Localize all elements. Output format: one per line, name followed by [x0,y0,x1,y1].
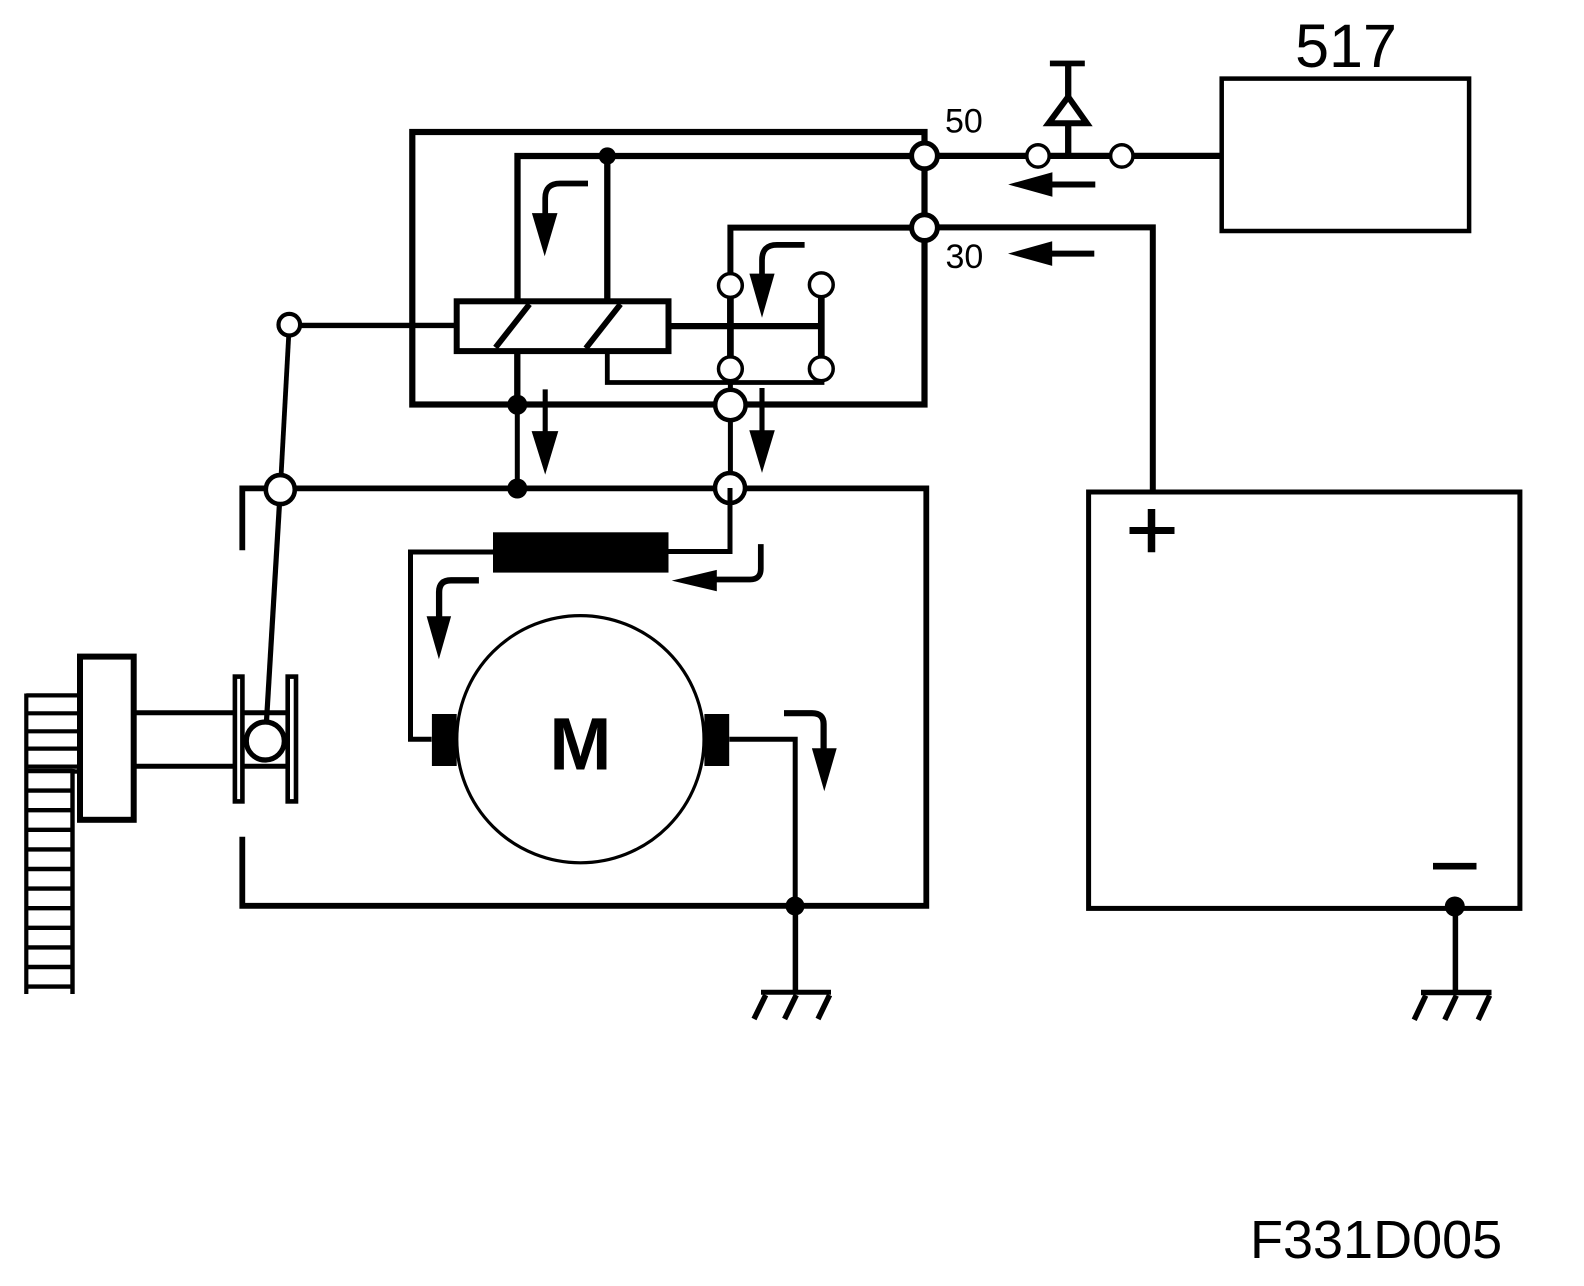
wire: node 30 to top-left contact [730,228,920,286]
arrow: field current (curved, pointing left) [672,544,761,591]
junction dot on starter box top edge [507,479,527,499]
arrow: into motor (curved, down, left of motor) [427,580,479,659]
motor right brush (black) [704,714,729,766]
arrow: out of motor (curved, down, right of motor) [784,713,837,791]
svg-text:M: M [549,703,611,786]
lever ball end [246,722,284,760]
clutch flange right bar [288,677,296,802]
junction dot battery negative [1445,897,1465,917]
arrow: down into starter (left) [532,389,559,474]
wire: solenoid left lead from lever pivot to coil [289,323,456,328]
wire: inner loop top, y=155 from corner to node 50 [518,156,921,301]
junction dot on relay bottom edge [507,395,527,415]
wire: coil top feed from junction [604,156,610,301]
svg-text:30: 30 [946,238,984,276]
diode / ignition switch symbol above 50 wire [1049,61,1087,154]
arrow: down into starter (right) [749,388,775,473]
relay box (solenoid switch housing) [412,132,924,405]
contact circle bottom-left [719,357,743,381]
ring gear teeth (lower rack) [26,769,78,994]
svg-text:517: 517 [1295,12,1397,80]
box 517 (ignition switch unit) [1222,79,1469,231]
wire: terminal 50 to ignition switch connectors [925,153,1222,159]
wire: battery negative to ground [1453,906,1459,990]
wire: field winding left end to motor left brush [411,552,494,739]
motor armature circle [457,616,704,863]
arrow: current to contacts (curved, inside relay right) [749,245,804,318]
contact circle bottom-right [809,357,833,381]
wire: coil bottom-right to moving contact (via elbow) [607,350,822,383]
contact circle top-left [719,274,743,298]
node 50 circle [912,143,938,169]
junction dot on starter box bottom edge [786,897,805,916]
connector circle right on 50 wire [1111,145,1133,167]
starter motor box (with gap in left edge for lever) [242,488,926,905]
engagement lever: lower link [265,490,280,741]
clutch flange left bar [235,677,243,802]
wire: coil bottom-left down to relay bottom edge [514,350,520,405]
contact bar right (moving contact) [818,285,825,369]
engagement lever: upper link [280,325,289,490]
motor left brush (black) [432,714,457,766]
armature shaft (two lines) [136,713,287,766]
contact bar left (moving contact) [727,286,734,369]
svg-text:F331D005: F331D005 [1250,1210,1502,1270]
lever fulcrum circle on starter box edge [266,475,295,504]
battery box [1089,492,1520,908]
pinion gear teeth (upper rack) [26,694,79,995]
node: big junction on relay bottom edge [715,390,745,420]
field winding (solid black) [493,532,669,572]
arrow: current from 517 toward 50 (left pointing) [1008,172,1095,197]
contact bridge bar from coil plunger [669,323,822,329]
junction dot on y=155 wire [599,147,616,164]
arrow: current from battery toward 30 (left pointing) [1008,241,1094,266]
wire: starter node down to field winding right end [669,488,731,552]
arrow: current into coil (curved, inside relay left) [532,184,588,257]
wire: motor right brush to ground node [729,739,795,906]
lever pivot top circle [279,314,301,336]
svg-text:50: 50 [945,103,983,141]
battery plus symbol [1130,509,1175,552]
connector circle left on 50 wire [1027,145,1049,167]
wire: bottom-left contact down through big node to starter node [728,369,733,488]
node 30 circle [912,215,938,241]
node: junction on starter box top edge [715,473,745,503]
pinion housing block [80,657,134,820]
solenoid coil SL (hatched box) [457,301,669,351]
ground (starter motor) [754,992,831,1019]
wire: starter box bottom to ground [793,906,799,990]
wire: terminal 30 to battery positive [925,227,1153,492]
wire: relay bottom edge to starter box top edge [515,405,520,489]
contact circle top-right [809,273,833,297]
ground (battery) [1414,993,1491,1020]
battery minus symbol [1433,863,1477,870]
